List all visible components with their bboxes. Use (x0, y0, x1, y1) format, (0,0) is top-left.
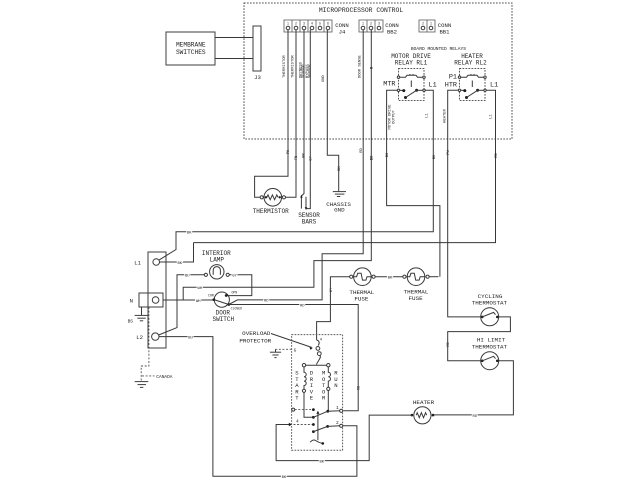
svg-text:N: N (130, 297, 133, 304)
svg-text:1: 1 (287, 22, 289, 26)
svg-text:CLOSED: CLOSED (231, 307, 243, 311)
svg-text:RD: RD (473, 415, 478, 419)
svg-text:HEATER: HEATER (413, 399, 435, 406)
svg-text:COM: COM (208, 294, 214, 298)
svg-text:BK: BK (178, 262, 183, 266)
svg-text:BK: BK (320, 460, 325, 464)
svg-text:6: 6 (327, 22, 329, 26)
svg-text:GND: GND (322, 74, 326, 82)
svg-text:BB2: BB2 (387, 29, 397, 36)
svg-text:2: 2 (295, 22, 297, 26)
svg-text:BU: BU (185, 275, 190, 279)
svg-text:L1: L1 (429, 82, 437, 90)
svg-text:3: 3 (303, 22, 305, 26)
svg-text:L1: L1 (426, 113, 430, 118)
svg-text:BARS: BARS (302, 219, 317, 226)
svg-text:THERMOSTAT: THERMOSTAT (472, 343, 508, 350)
svg-text:THERMISTOR: THERMISTOR (291, 54, 295, 78)
svg-text:L1: L1 (490, 114, 494, 119)
svg-text:GY: GY (232, 275, 237, 279)
svg-text:4: 4 (296, 418, 299, 424)
svg-text:2: 2 (370, 22, 372, 26)
svg-text:RD: RD (300, 304, 305, 308)
svg-text:J3: J3 (254, 74, 261, 81)
svg-text:HEATER: HEATER (444, 108, 448, 122)
svg-text:SENSOR: SENSOR (308, 64, 312, 78)
svg-text:BR: BR (302, 153, 306, 158)
svg-text:SWITCH: SWITCH (212, 316, 234, 323)
svg-text:RELAY RL2: RELAY RL2 (454, 60, 487, 67)
svg-text:1: 1 (430, 22, 432, 26)
svg-text:THERMISTOR: THERMISTOR (283, 54, 287, 78)
svg-text:1: 1 (336, 405, 339, 411)
svg-text:BK: BK (338, 166, 342, 171)
svg-text:THERMISTOR: THERMISTOR (253, 208, 289, 215)
svg-text:GND: GND (334, 207, 345, 214)
svg-text:RELAY RL1: RELAY RL1 (395, 60, 428, 67)
svg-text:RD: RD (495, 153, 499, 158)
svg-text:PU: PU (447, 150, 451, 155)
svg-text:WH: WH (196, 300, 201, 304)
svg-text:N: N (334, 382, 337, 389)
svg-text:PROTECTOR: PROTECTOR (239, 337, 271, 344)
svg-text:FUSE: FUSE (354, 296, 369, 303)
svg-text:MEMBRANE: MEMBRANE (176, 42, 206, 49)
svg-text:L1: L1 (490, 82, 498, 90)
svg-text:4: 4 (311, 22, 313, 26)
svg-text:BS: BS (128, 319, 134, 325)
svg-text:MTR: MTR (383, 81, 395, 89)
svg-text:GY: GY (310, 156, 314, 161)
svg-text:DOOR SENSE: DOOR SENSE (358, 54, 362, 78)
svg-text:J4: J4 (339, 29, 346, 36)
svg-text:PK: PK (287, 149, 291, 154)
svg-text:1: 1 (362, 22, 364, 26)
svg-text:BU: BU (386, 152, 390, 157)
svg-text:2: 2 (336, 420, 339, 426)
svg-text:LAMP: LAMP (210, 256, 225, 263)
svg-text:THERMOSTAT: THERMOSTAT (472, 300, 508, 307)
svg-text:G: G (294, 347, 297, 353)
svg-text:BK: BK (187, 232, 192, 236)
svg-text:3: 3 (378, 22, 380, 26)
svg-text:5: 5 (319, 22, 321, 26)
svg-text:2: 2 (422, 22, 424, 26)
svg-text:CANADA: CANADA (156, 374, 173, 380)
svg-text:SWITCHES: SWITCHES (176, 49, 206, 56)
svg-text:P1: P1 (449, 74, 457, 82)
svg-text:L1: L1 (134, 259, 141, 266)
svg-text:L2: L2 (136, 334, 143, 341)
svg-text:MICROPROCESSOR CONTROL: MICROPROCESSOR CONTROL (319, 7, 404, 14)
svg-text:BU: BU (188, 336, 193, 340)
svg-text:WH: WH (198, 287, 203, 291)
svg-text:RD: RD (264, 300, 269, 304)
svg-text:BK: BK (388, 277, 393, 281)
svg-text:OVERLOAD: OVERLOAD (242, 330, 271, 337)
svg-text:BK: BK (282, 476, 287, 480)
svg-text:BOARD MOUNTED RELAYS: BOARD MOUNTED RELAYS (411, 46, 466, 52)
svg-text:FUSE: FUSE (409, 295, 424, 302)
svg-text:TN: TN (295, 156, 299, 161)
svg-text:BB1: BB1 (439, 29, 450, 36)
svg-text:HTR: HTR (445, 82, 457, 90)
svg-text:BK: BK (433, 154, 437, 159)
svg-text:OPN: OPN (232, 290, 238, 294)
svg-text:OUTPUT: OUTPUT (393, 109, 397, 123)
